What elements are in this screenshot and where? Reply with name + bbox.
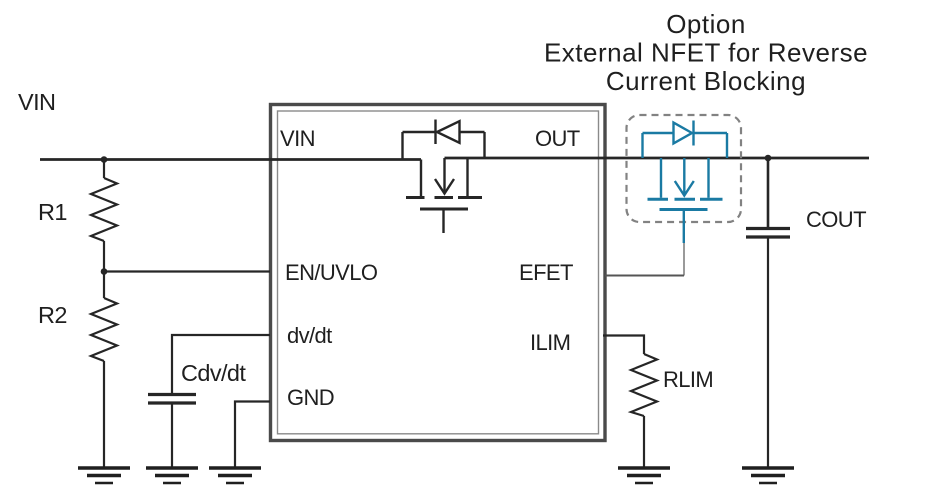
node: OUT / COUT junction [765,155,772,162]
svg-text:COUT: COUT [806,207,866,232]
resistor RLIM [631,354,657,467]
node: VIN / R1 junction [101,156,108,163]
ground (GND pin) [209,468,261,483]
svg-text:Current Blocking: Current Blocking [606,66,806,96]
svg-text:EN/UVLO: EN/UVLO [285,260,378,285]
svg-text:ILIM: ILIM [530,330,570,355]
pass FET Q1 (internal MOSFET) [406,158,482,233]
IC U1 outline [271,105,606,441]
svg-text:R2: R2 [38,302,67,328]
external body diode D2 (blue) [643,121,728,159]
external NFET Q2 (blue) [648,158,723,243]
svg-text:VIN: VIN [280,126,315,151]
svg-text:Option: Option [666,9,746,39]
wire: ILIM pin to RLIM [603,336,644,355]
ground (COUT) [742,468,794,483]
svg-text:EFET: EFET [519,260,573,285]
ground (RLIM) [618,468,670,483]
svg-text:GND: GND [287,385,334,410]
body diode D1 (internal) [403,120,485,160]
svg-text:VIN: VIN [18,89,55,115]
wire: EFET pin to external gate [605,243,684,276]
svg-text:RLIM: RLIM [663,367,713,392]
wire: VIN input rail [40,158,421,161]
svg-text:External NFET for Reverse: External NFET for Reverse [544,38,868,68]
svg-text:OUT: OUT [535,126,580,151]
title: Option External NFET for Reverse Current Blocking [544,9,868,96]
wire: OUT rail [445,157,870,160]
node: R1/R2 divider tap [101,268,108,275]
wire: divider tap to EN/UVLO pin [104,270,270,272]
ground (Cdv/dt) [146,468,198,483]
svg-text:dv/dt: dv/dt [287,323,332,348]
resistor R1 [91,160,117,272]
capacitor COUT [746,158,790,467]
ground (R2) [78,468,130,483]
wire: GND pin lead [235,402,270,467]
svg-text:R1: R1 [38,199,67,225]
resistor R2 [91,272,117,467]
wire: dv/dt pin to Cdv/dt [172,335,270,393]
capacitor Cdv/dt [148,395,196,467]
svg-text:Cdv/dt: Cdv/dt [181,360,246,386]
dashed option box [627,115,742,222]
